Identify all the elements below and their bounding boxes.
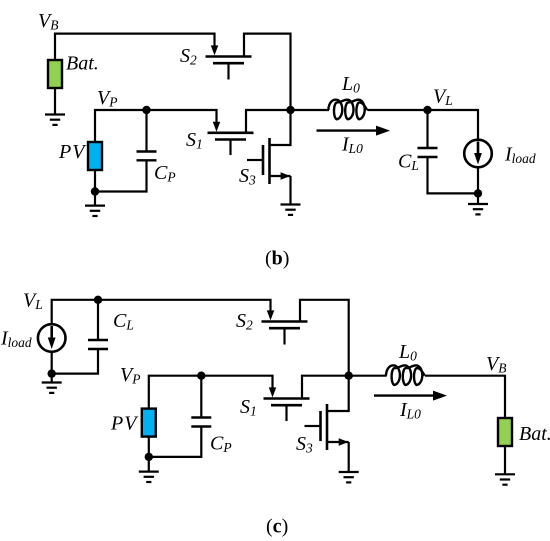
svg-text:VP: VP xyxy=(120,364,140,387)
wire: inductor to VB (c) xyxy=(425,376,505,418)
transistor S3 (c): gate bar xyxy=(319,411,322,441)
wire: battery top to S2 gate-side (top rail b) xyxy=(55,34,215,60)
node dot main junction (c) xyxy=(345,372,353,380)
ground (S3 c) xyxy=(339,472,359,482)
svg-text:S2: S2 xyxy=(180,45,197,68)
svg-text:PV: PV xyxy=(58,141,87,163)
current source Iload (c): arrow xyxy=(50,326,53,340)
wire: PV node to ground (b) xyxy=(94,192,96,206)
transistor S1 (b): gate stub xyxy=(229,140,231,156)
svg-text:IL0: IL0 xyxy=(341,134,363,157)
current source Iload (b): circle xyxy=(464,140,492,168)
wire: S3 source to ground (b) xyxy=(289,176,291,204)
node dot PV-bottom (b) xyxy=(91,187,99,195)
battery Bat. (b) xyxy=(48,60,62,88)
capacitor CP (c): plates xyxy=(191,418,211,427)
node dot top-left (c) xyxy=(94,296,102,304)
svg-text:S1: S1 xyxy=(240,396,257,419)
node dot VP (b) xyxy=(142,106,150,114)
current source Iload (b): arrow xyxy=(477,142,480,156)
arrow IL0 (c) xyxy=(374,394,434,396)
ground (PV c) xyxy=(139,472,159,482)
wire: junction down to S3 drain (c) xyxy=(327,376,349,411)
transistor S2 (c): gate stub xyxy=(283,328,285,344)
ground (PV b) xyxy=(85,206,105,216)
transistor S1 (c): gate stub xyxy=(285,405,287,421)
svg-text:VL: VL xyxy=(23,290,43,313)
svg-text:L0: L0 xyxy=(341,73,360,96)
svg-text:S2: S2 xyxy=(236,310,253,333)
transistor S1 (b): channel bar xyxy=(208,132,254,135)
ground (battery c) xyxy=(495,474,515,484)
capacitor CL (c): top lead xyxy=(97,300,99,340)
transistor S3 (b): gate stub xyxy=(247,159,263,161)
svg-text:CP: CP xyxy=(210,433,232,456)
transistor S2 (c): gate bar xyxy=(269,327,300,330)
wire: S3 source to ground (c) xyxy=(348,442,350,472)
capacitor CP (c): top lead xyxy=(200,376,202,418)
wire: VL to Iload (b) xyxy=(428,110,479,140)
svg-text:CP: CP xyxy=(154,162,176,185)
svg-text:S1: S1 xyxy=(186,129,203,152)
node dot main junction (b) xyxy=(286,106,294,114)
svg-text:Iload: Iload xyxy=(0,328,32,351)
wire: battery bottom to ground xyxy=(54,88,56,114)
wire: CP bottom to PV bottom (c) xyxy=(149,427,202,457)
capacitor CP (b): top lead xyxy=(145,110,147,152)
svg-text:S3: S3 xyxy=(239,165,256,188)
wire: Iload bottom (c) xyxy=(51,352,53,374)
wire: battery bottom to ground (c) xyxy=(504,446,506,474)
svg-text:VP: VP xyxy=(97,87,117,110)
transistor S1 (b): gate bar xyxy=(215,138,246,141)
wire: junction to inductor (b) xyxy=(291,109,330,111)
node dot VL (b) xyxy=(423,106,431,114)
transistor S3 (c): channel bar xyxy=(326,404,329,450)
node dot VP (c) xyxy=(197,372,205,380)
transistor S3 (c): gate stub xyxy=(305,425,321,427)
transistor S1 (c): arrow lead xyxy=(269,387,277,397)
current source Iload (c): circle xyxy=(38,324,66,352)
wire: PV node to ground (c) xyxy=(148,457,150,471)
svg-text:CL: CL xyxy=(398,151,419,174)
transistor S2 (b): arrow lead xyxy=(211,45,219,55)
node dot Iload-bottom (b) xyxy=(474,189,482,197)
wire: bottom of CP to PV bottom (b) xyxy=(95,160,147,191)
svg-text:(c): (c) xyxy=(266,516,288,538)
wire: Iload bottom to ground node (b) xyxy=(477,168,479,195)
svg-text:VB: VB xyxy=(38,10,58,33)
capacitor CL (b): top lead xyxy=(426,110,428,148)
transistor S2 (c): arrow lead xyxy=(267,310,275,320)
svg-text:IL0: IL0 xyxy=(399,399,421,422)
ground (S3 b) xyxy=(281,205,301,215)
svg-text:S3: S3 xyxy=(296,433,313,456)
PV source (b) xyxy=(88,142,102,170)
svg-text:Bat.: Bat. xyxy=(519,423,550,445)
transistor S1 (c): gate bar xyxy=(271,404,302,407)
svg-text:Bat.: Bat. xyxy=(66,53,99,75)
svg-text:VL: VL xyxy=(433,86,453,109)
svg-text:VB: VB xyxy=(486,353,506,376)
wire: PV bottom (c) xyxy=(148,437,150,457)
svg-text:Iload: Iload xyxy=(504,144,536,167)
transistor S2 (b): channel bar xyxy=(206,55,252,58)
wire: VL rail to S2 (c) xyxy=(52,300,271,324)
battery Bat. (c) xyxy=(498,418,512,446)
wire: S1 drain up to main rail (c) xyxy=(302,376,349,399)
wire: VP rail to S1 (c) xyxy=(149,376,273,409)
svg-text:PV: PV xyxy=(110,413,139,435)
wire: node to ground (c left) xyxy=(51,374,53,382)
wire: S2 drain up-over-down to node (b) xyxy=(244,34,291,110)
svg-text:L0: L0 xyxy=(398,341,417,364)
capacitor CL (c): bottom lead xyxy=(52,349,98,374)
wire: to ground (b right) xyxy=(477,193,479,203)
wire: PV bottom to ground node (b) xyxy=(94,170,96,192)
svg-text:(b): (b) xyxy=(265,248,289,270)
arrow IL0 (b) xyxy=(317,129,378,131)
transistor S2 (b): gate stub xyxy=(227,63,229,79)
transistor S3 (b): channel bar xyxy=(268,138,271,184)
capacitor CP (b): plates xyxy=(137,152,157,161)
wire: S1 drain up to main rail (b) xyxy=(246,110,291,133)
capacitor CL (c): plates xyxy=(88,340,108,349)
inductor L0 (b) xyxy=(328,100,367,120)
transistor S3 (b): gate bar xyxy=(262,145,265,175)
PV source (c) xyxy=(142,409,156,437)
wire: junction down to S3 drain (b) xyxy=(270,110,291,145)
ground (Iload c) xyxy=(42,383,62,393)
transistor S1 (b): arrow lead xyxy=(213,122,221,132)
wire: VP rail to S1 (b) xyxy=(95,110,217,142)
wire: S2 drain up-over-down to junction (c) xyxy=(300,300,349,376)
transistor S2 (c): channel bar xyxy=(262,320,308,323)
inductor L0 (c) xyxy=(386,365,425,385)
capacitor CL (b): plates xyxy=(418,148,438,157)
node dot PV-bottom (c) xyxy=(145,453,153,461)
transistor S3 (c): source lead with arrow xyxy=(327,441,349,443)
svg-text:CL: CL xyxy=(113,310,134,333)
ground (Iload b) xyxy=(468,204,488,214)
wire: inductor to VL node (b) xyxy=(367,109,427,111)
transistor S3 (b): source lead with arrow xyxy=(270,175,291,177)
ground (battery b) xyxy=(45,115,65,125)
node dot Iload-bottom (c) xyxy=(48,369,56,377)
wire: junction to inductor (c) xyxy=(349,375,387,377)
transistor S2 (b): gate bar xyxy=(213,62,244,65)
capacitor CL (b): bottom lead xyxy=(428,157,479,193)
transistor S1 (c): channel bar xyxy=(264,397,310,400)
